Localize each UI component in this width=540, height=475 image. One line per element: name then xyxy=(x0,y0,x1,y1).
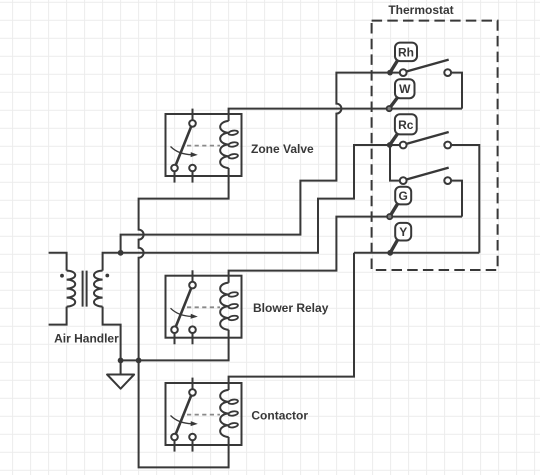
relay K3 (contactor) switch NO contact circle xyxy=(171,434,178,441)
thermostat heat switch blade xyxy=(406,60,448,72)
transformer core xyxy=(83,271,87,307)
relay K1 (zone valve) switch common contact circle xyxy=(189,120,196,127)
Rh label leader xyxy=(390,61,398,73)
transformer T1 primary winding xyxy=(67,271,76,307)
thermostat heat switch pivot circle xyxy=(400,69,407,76)
thermostat cool switch contact circle xyxy=(444,142,451,149)
thermostat fan switch blade xyxy=(406,168,448,180)
relay K1 (zone valve) switch bottom-left pin xyxy=(174,171,176,182)
thermostat terminal Y label box xyxy=(395,223,411,241)
primary polarity dot xyxy=(60,274,64,278)
relay K3 (contactor) switch top pin xyxy=(192,378,194,390)
secondary polarity dot xyxy=(105,274,109,278)
wire W to zone valve coil top xyxy=(229,109,462,121)
node W (connection dot) xyxy=(387,106,392,111)
relay K1 (zone valve) switch bottom-right pin xyxy=(192,171,194,182)
wire Y line xyxy=(354,252,479,254)
relay K3 (contactor) switch bottom-left pin xyxy=(174,440,176,451)
thermostat enclosure (dashed) xyxy=(372,21,498,270)
relay K3 (contactor) actuation arrow xyxy=(171,416,193,424)
relay K1 (zone valve) coil linkage dashed line xyxy=(187,145,220,147)
node G (connection dot) xyxy=(387,214,392,219)
wire secondary bottom lead xyxy=(103,307,121,361)
relay K2 (blower relay) switch NC contact circle xyxy=(189,326,196,333)
Y label leader xyxy=(390,240,397,253)
wire G to blower relay coil xyxy=(229,217,462,283)
relay K3 (contactor) box xyxy=(166,383,242,445)
svg-text:Thermostat: Thermostat xyxy=(388,3,453,17)
relay K3 (contactor) coil xyxy=(220,390,228,437)
wire common to blower coil bottom xyxy=(121,330,229,361)
node Rc (junction dot) xyxy=(387,142,393,148)
relay K2 (blower relay) switch blade xyxy=(176,288,191,326)
relay K3 (contactor) switch NC contact circle xyxy=(189,434,196,441)
wire Rc cool contact to Y xyxy=(448,145,480,253)
Rc label leader xyxy=(390,134,398,145)
wire Rc to fan switch pivot xyxy=(390,145,403,181)
ground stem xyxy=(120,360,122,374)
relay K2 (blower relay) switch common contact circle xyxy=(189,282,196,289)
ground symbol xyxy=(107,375,134,389)
relay K1 (zone valve) switch top pin xyxy=(192,109,194,121)
node transformer hot junction (junction dot) xyxy=(118,250,124,256)
svg-text:Y: Y xyxy=(399,225,407,239)
wire fan contact to G xyxy=(448,181,462,217)
wire Y to contactor coil top xyxy=(229,253,354,390)
relay K2 (blower relay) switch NO contact circle xyxy=(171,326,178,333)
thermostat terminal G label box xyxy=(395,187,411,205)
svg-text:G: G xyxy=(399,189,408,203)
thermostat terminal Rc label box xyxy=(395,114,417,134)
relay K1 (zone valve) switch NO contact circle xyxy=(171,165,178,172)
relay K3 (contactor) switch bottom-right pin xyxy=(192,440,194,451)
relay K1 (zone valve) actuation arrow xyxy=(171,147,193,155)
relay K1 (zone valve) box xyxy=(166,114,242,176)
wire common to contactor coil bottom xyxy=(139,360,229,467)
svg-text:Air Handler: Air Handler xyxy=(54,332,119,346)
thermostat cool switch blade xyxy=(406,132,448,144)
relay K2 (blower relay) actuation arrow xyxy=(171,308,193,316)
node Rh (junction dot) xyxy=(387,70,393,76)
relay K1 (zone valve) switch blade xyxy=(176,127,191,165)
relay K3 (contactor) coil linkage dashed line xyxy=(187,414,220,416)
thermostat terminal W label box xyxy=(395,79,415,98)
node Y (junction dot) xyxy=(387,250,393,256)
relay K2 (blower relay) switch top pin xyxy=(192,270,194,282)
relay K2 (blower relay) coil xyxy=(220,283,228,330)
wire primary top lead xyxy=(49,253,67,271)
wire primary bottom lead xyxy=(49,307,67,325)
thermostat terminal Rh label box xyxy=(395,43,417,62)
svg-text:Rc: Rc xyxy=(398,118,414,132)
svg-text:Blower Relay: Blower Relay xyxy=(253,301,329,315)
thermostat fan switch pivot circle xyxy=(400,177,407,184)
relay K2 (blower relay) switch bottom-left pin xyxy=(174,333,176,344)
svg-text:Rh: Rh xyxy=(398,45,414,59)
svg-text:Zone Valve: Zone Valve xyxy=(251,142,314,156)
wire zone valve coil return xyxy=(139,168,229,360)
wire Rh switch contact to W xyxy=(448,73,462,109)
wire Rh to transformer hot xyxy=(121,73,404,253)
node common branch junction (junction dot) xyxy=(136,358,142,364)
transformer T1 secondary winding xyxy=(94,271,103,307)
W label leader xyxy=(389,98,397,109)
thermostat fan switch contact circle xyxy=(444,177,451,184)
relay K3 (contactor) switch common contact circle xyxy=(189,389,196,396)
svg-text:W: W xyxy=(399,82,411,96)
thermostat cool switch pivot circle xyxy=(400,142,407,149)
relay K2 (blower relay) switch bottom-right pin xyxy=(192,333,194,344)
G label leader xyxy=(390,204,398,217)
svg-text:Contactor: Contactor xyxy=(251,409,308,423)
wire secondary top lead xyxy=(103,253,121,271)
wire Rc to transformer hot xyxy=(121,145,404,253)
node common/ground junction (junction dot) xyxy=(118,358,124,364)
relay K1 (zone valve) coil xyxy=(220,121,228,168)
relay K2 (blower relay) coil linkage dashed line xyxy=(187,306,220,308)
thermostat heat switch contact circle xyxy=(444,69,451,76)
relay K2 (blower relay) box xyxy=(166,276,242,338)
relay K1 (zone valve) switch NC contact circle xyxy=(189,165,196,172)
relay K3 (contactor) switch blade xyxy=(176,396,191,434)
